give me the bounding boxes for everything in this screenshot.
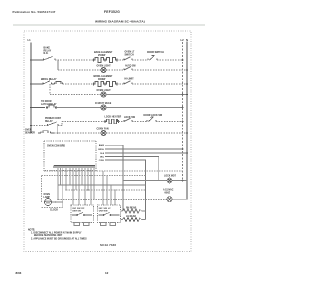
wire element1 left: [121, 210, 123, 212]
svg-text:POWER CONT: POWER CONT: [45, 118, 62, 120]
motor convection: [101, 130, 106, 135]
svg-text:MDL: MDL: [100, 157, 105, 159]
pin wire 1: [105, 145, 123, 211]
wire L2 bus: [182, 42, 184, 181]
wire rung1 dashed to element: [55, 59, 94, 61]
switch box 1 tabs: [74, 223, 80, 226]
svg-text:N: N: [186, 38, 188, 42]
comb drop wires: [58, 168, 94, 208]
wire rung3 dashed: [63, 83, 94, 85]
svg-text:BROIL RELAY: BROIL RELAY: [41, 78, 57, 81]
wire rung1 after element: [117, 59, 124, 61]
wire rung2: [58, 69, 101, 71]
wire rung3 to N: [132, 83, 187, 85]
wire drop from rung3: [49, 84, 51, 95]
control board box: [44, 141, 96, 171]
svg-text:1. DISCONNECT ALL POWER AT MAI: 1. DISCONNECT ALL POWER AT MAIN SUPPLY: [31, 231, 82, 234]
svg-text:NOTE:: NOTE:: [28, 229, 35, 231]
svg-text:OVEN CON BRD: OVEN CON BRD: [47, 146, 65, 148]
svg-text:BAKE ELEMENT: BAKE ELEMENT: [94, 51, 113, 54]
svg-text:OVEN LT: OVEN LT: [125, 52, 135, 54]
wire rung5 left: [31, 107, 45, 109]
switch bake relay: [44, 57, 56, 61]
wire rung1 to L2: [157, 59, 183, 61]
switch thermal rung5: [46, 105, 56, 108]
switch hi-limit: [124, 81, 132, 84]
pin wire 2: [105, 148, 183, 150]
motor lock: [167, 178, 172, 183]
svg-text:SC4A 7346: SC4A 7346: [100, 243, 116, 247]
svg-text:BAKE: BAKE: [99, 144, 105, 147]
lamp indicator: [101, 105, 106, 110]
switch latch: [48, 122, 59, 126]
svg-text:BAKE: BAKE: [44, 47, 51, 50]
wire rung7 dashed: [54, 132, 101, 134]
wire rung6 to L2: [156, 121, 183, 123]
svg-text:SENSOR: SENSOR: [25, 132, 35, 134]
resistor surface element 2: [121, 219, 123, 221]
switch broil relay: [43, 81, 52, 84]
wire bundle y185: [58, 184, 146, 186]
svg-text:L2: L2: [181, 38, 185, 42]
schematic frame: [24, 31, 191, 252]
wire dashed y175.5: [42, 175, 146, 177]
header rule: [13, 24, 205, 26]
lamp oven: [101, 67, 106, 72]
svg-text:8/03: 8/03: [16, 271, 22, 275]
junction dots bottom mesh: [57, 184, 115, 200]
switch door lock: [147, 117, 156, 122]
svg-text:CONV: CONV: [99, 160, 105, 162]
svg-text:BROIL ELEMENT: BROIL ELEMENT: [94, 76, 114, 78]
svg-text:2500W: 2500W: [98, 55, 106, 57]
svg-text:UNIT 6IN: UNIT 6IN: [72, 211, 81, 213]
wire dashed below lamp: [42, 207, 63, 209]
svg-text:3000W: 3000W: [98, 79, 106, 81]
wire rung7 to N: [106, 132, 187, 134]
wire rung3 left: [31, 83, 43, 85]
wire N bus: [186, 42, 188, 200]
extra drop wires to box2: [103, 171, 115, 205]
resistor lock heater: [105, 119, 119, 123]
wire rung6 jog: [58, 122, 105, 126]
wire L1 bus: [30, 43, 32, 134]
svg-text:RELAY: RELAY: [45, 120, 53, 123]
svg-text:HI-LIMIT: HI-LIMIT: [125, 79, 135, 81]
resistor bake element: [94, 58, 118, 63]
svg-text:OVEN: OVEN: [44, 194, 51, 196]
wire rung3 after element: [117, 83, 124, 85]
thermal fuse rung7: [38, 131, 54, 133]
svg-text:CLOCK: CLOCK: [50, 210, 58, 212]
wire rung2 to N: [132, 69, 187, 71]
svg-text:2. APPLIANCE MUST BE GROUNDED: 2. APPLIANCE MUST BE GROUNDED AT ALL TIM…: [31, 237, 87, 240]
lamp clock: [44, 198, 51, 205]
thermal switch rung3: [52, 82, 63, 85]
wire rung6 left: [31, 125, 48, 127]
pin wire 3: [105, 152, 187, 154]
pin wire 5: [105, 160, 146, 220]
svg-text:SWITCH: SWITCH: [125, 54, 135, 56]
wire lamp to junction: [52, 201, 63, 203]
svg-text:LOCK HEATER: LOCK HEATER: [105, 116, 122, 119]
wire left drop to lamp: [41, 176, 43, 203]
svg-text:N.O.: N.O.: [44, 53, 49, 55]
switch lock: [124, 118, 132, 121]
svg-text:UNIT 8IN: UNIT 8IN: [99, 211, 108, 213]
switch box 2 tabs: [101, 223, 107, 226]
svg-text:L1: L1: [28, 38, 32, 42]
svg-text:DLB: DLB: [100, 153, 104, 155]
svg-text:FEF352G: FEF352G: [104, 10, 120, 14]
wire rung6 drop to rung7: [57, 126, 59, 134]
svg-text:BEFORE SERVICING UNIT: BEFORE SERVICING UNIT: [34, 235, 63, 237]
wire rung1 left: [31, 59, 44, 61]
svg-text:LOCK MOT: LOCK MOT: [164, 176, 177, 178]
svg-text:WIRING DIAGRAM SC-48AA(7A): WIRING DIAGRAM SC-48AA(7A): [95, 19, 145, 23]
surface switch box 2: [98, 205, 121, 223]
svg-text:LH REAR: LH REAR: [126, 215, 136, 218]
wire rung6: [119, 121, 125, 123]
pin wire 4: [105, 157, 159, 181]
wire motor1 y180.5: [123, 180, 167, 182]
svg-text:60HZ: 60HZ: [165, 192, 171, 194]
wire rung4 to N: [106, 94, 187, 96]
svg-text:RH REAR: RH REAR: [126, 206, 137, 209]
wire rung6: [132, 121, 147, 123]
resistor broil element: [94, 82, 118, 87]
svg-text:AUTO SW: AUTO SW: [125, 65, 136, 68]
wire rung5: [57, 107, 101, 109]
svg-text:RELAY: RELAY: [44, 49, 52, 52]
wire rung5 to L2: [106, 107, 182, 109]
svg-text:12: 12: [105, 271, 109, 275]
switch rung2: [124, 67, 132, 70]
wire element1 right: [142, 210, 146, 212]
svg-text:Publication No. 5995417147: Publication No. 5995417147: [13, 10, 56, 14]
wire rung4: [50, 94, 101, 96]
wire element2 right: [142, 219, 146, 221]
wire motor2 to N: [172, 198, 187, 200]
resistor surface element 1: [123, 209, 142, 213]
wire rung2 mid: [106, 69, 124, 71]
svg-text:TO DOOR: TO DOOR: [41, 101, 52, 103]
wire dashed y171: [44, 170, 183, 172]
svg-text:OVEN: OVEN: [25, 130, 32, 132]
motor timer: [167, 197, 172, 202]
surface switch box 1: [71, 205, 94, 223]
svg-text:CONV FAN: CONV FAN: [97, 128, 109, 131]
wire bundle y199.5: [58, 199, 167, 201]
wire drop from rung1: [57, 60, 59, 70]
switch oven light: [124, 57, 132, 60]
wire bundle y190: [66, 189, 146, 191]
svg-text:BROIL: BROIL: [98, 149, 104, 151]
svg-text:A 115VAC: A 115VAC: [163, 189, 174, 192]
svg-text:DOOR SWITCH: DOOR SWITCH: [147, 52, 164, 54]
lamp oven2: [101, 92, 106, 97]
connector comb: [54, 166, 95, 169]
switch door: [148, 55, 157, 60]
wire rung1: [132, 59, 148, 61]
